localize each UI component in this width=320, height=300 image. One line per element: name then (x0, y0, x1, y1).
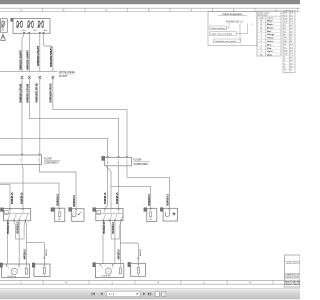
svg-text:White: White (267, 20, 274, 23)
svg-text:B16R1B-L5: B16R1B-L5 (57, 193, 59, 205)
right floor connector RC tab (102, 156, 105, 160)
svg-text:B16R1B-L5: B16R1B-L5 (12, 192, 14, 204)
box1R internal wires (100, 264, 120, 268)
battery SBR2 tab (160, 208, 163, 212)
svg-text:0.3: 0.3 (290, 12, 293, 14)
svg-text:Green: Green (267, 40, 274, 43)
svg-text:0.85: 0.85 (284, 19, 288, 21)
svg-text:A6R1B: A6R1B (139, 249, 142, 256)
left relay contact arms (8, 214, 28, 220)
LC pin 1 mark (21, 154, 23, 155)
battery SBR2 box (163, 208, 177, 221)
resistor box2L (34, 264, 50, 276)
switch hook element SBL2 (72, 210, 76, 217)
toolbar last-page arrow (148, 292, 151, 295)
switch SBL2 box (72, 209, 84, 222)
svg-text:HORN CIRCUIT: HORN CIRCUIT (286, 263, 300, 265)
svg-text:0.5f: 0.5f (284, 15, 288, 17)
svg-text:B16R1B-L5: B16R1B-L5 (149, 193, 151, 205)
svg-text:1 / 1: 1 / 1 (109, 292, 115, 296)
resistor SBR1 tab (144, 208, 147, 212)
connector J/B box A (cropped at left edge) (1, 19, 8, 33)
svg-text:Cable colour (Orange): Cable colour (Orange) (210, 33, 232, 36)
label conductor size (214, 39, 241, 43)
resistor in box2L (43, 268, 45, 274)
wire right relay pin1 to lamp box (102, 221, 104, 264)
svg-text:B08R1B2R-5FLR5: B08R1B2R-5FLR5 (50, 83, 53, 103)
toolbar first-page arrow (92, 292, 95, 295)
svg-text:FLOOR: FLOOR (44, 158, 52, 160)
svg-text:8.0: 8.0 (290, 67, 293, 69)
svg-text:Au3: Au3 (44, 29, 47, 32)
cable designation legend box (208, 12, 257, 46)
svg-text:HORN-LH: HORN-LH (8, 276, 17, 278)
svg-text:4: 4 (157, 280, 159, 284)
SBR1 pin mark (150, 208, 152, 209)
left relay K1 box (4, 209, 31, 221)
svg-text:0.5: 0.5 (284, 47, 287, 49)
toolbar page input box (107, 291, 141, 296)
svg-text:1.25: 1.25 (284, 54, 288, 56)
solenoid cell 3 in box B (37, 21, 43, 28)
svg-text:WIRING DIAGRAM: WIRING DIAGRAM (285, 283, 300, 286)
svg-text:1: 1 (126, 162, 127, 164)
resistor SBR1 box (147, 208, 157, 221)
svg-text:Cable marking: Cable marking (211, 27, 226, 30)
left relay top pin marks (9, 209, 24, 210)
svg-text:B10R1B-L5: B10R1B-L5 (17, 221, 19, 233)
svg-text:0.8: 0.8 (290, 51, 293, 53)
svg-text:B08R1B2-L5WHT5: B08R1B2-L5WHT5 (19, 50, 22, 70)
box2L pin mark (44, 265, 46, 266)
right floor connector RC (105, 157, 132, 165)
left relay tab (1, 208, 4, 212)
splice mark on box2L drop (44, 257, 46, 259)
svg-text:3: 3 (107, 162, 108, 164)
wire right relay pin4 down to lamp box resistor (119, 221, 122, 264)
svg-text:20: 20 (290, 41, 292, 43)
svg-text:B08R1B2-L5WHT5: B08R1B2-L5WHT5 (27, 50, 30, 70)
svg-text:COMPONENT: COMPONENT (44, 163, 60, 165)
svg-text:W: W (260, 21, 262, 23)
svg-text:0.3f: 0.3f (284, 12, 288, 14)
svg-text:Au2: Au2 (33, 29, 36, 32)
svg-text:2: 2 (284, 57, 285, 59)
left relay internal bus (5, 213, 30, 215)
warning triangle (1, 34, 6, 40)
relay block box B (13, 19, 50, 34)
wire RC pin2 to right relay (118, 166, 120, 209)
svg-text:Brown: Brown (267, 26, 274, 29)
left relay bottom pin marks (7, 220, 26, 221)
right relay bottom pin marks (103, 220, 122, 221)
title block (285, 255, 305, 287)
svg-text:2: 2 (20, 160, 21, 162)
wire W1 lower run (21, 79, 23, 155)
svg-text:B08R1B2-L5FLR5: B08R1B2-L5FLR5 (19, 83, 22, 102)
svg-text:B08R1B2R-5WHT5: B08R1B2R-5WHT5 (50, 47, 53, 67)
svg-text:1: 1 (111, 280, 113, 284)
pin dots box A (3, 21, 4, 28)
svg-text:A6R1B-L5: A6R1B-L5 (118, 249, 121, 260)
svg-text:0.8: 0.8 (290, 19, 293, 21)
svg-text:A6R1B: A6R1B (45, 249, 48, 256)
lamp box1R tab (93, 263, 96, 267)
svg-text:15f: 15f (284, 38, 287, 40)
RC pin marks (107, 156, 129, 157)
right relay tab (93, 208, 96, 212)
wire LC pin2 to switch SBL2 (40, 164, 77, 207)
wire relay pin4 down to lamp box resistor (25, 221, 28, 264)
viewer top dark bar (0, 0, 300, 4)
svg-text:4: 4 (65, 280, 67, 284)
resistor in box1L (25, 268, 27, 274)
svg-text:1: 1 (20, 280, 22, 284)
svg-text:Cable designation: Cable designation (222, 13, 243, 16)
resistor in box2R (137, 267, 139, 273)
svg-text:Gr: Gr (260, 54, 263, 57)
svg-text:1.25: 1.25 (284, 22, 288, 24)
svg-text:W08R1B2-L5FLR5: W08R1B2-L5FLR5 (36, 83, 39, 103)
lamp box1L (2, 264, 30, 277)
svg-text:W08R1B2-L5WHT5: W08R1B2-L5WHT5 (37, 45, 40, 66)
lamp box1R (95, 264, 123, 278)
wire relay pin3 to lamp box (18, 221, 20, 264)
inline connector splice on W2 (28, 76, 31, 79)
solenoid cell 1 in box B (16, 21, 22, 28)
right relay contact arms (103, 214, 123, 220)
svg-text:0.85: 0.85 (284, 51, 288, 53)
resistor box2R (130, 263, 145, 276)
svg-text:FLOOR: FLOOR (133, 160, 141, 162)
box1L internal wires (7, 264, 27, 269)
bottom ruler zone numbers (20, 280, 251, 284)
harness bracket below right relay (110, 221, 122, 239)
SBR2 pin mark (169, 208, 171, 209)
svg-text:B16R1B-L5: B16R1B-L5 (74, 194, 76, 206)
svg-text:B10R1W-L5: B10R1W-L5 (104, 221, 106, 234)
resistor element SBL1 (58, 212, 60, 217)
right relay K2 box (96, 208, 123, 220)
wire branch to resistor SBR1 (111, 186, 151, 208)
box1R pin marks (100, 264, 114, 265)
svg-text:3: 3 (284, 60, 285, 62)
wire LC pin1 to left relay (22, 164, 23, 208)
feed wire from off-page to right connector (0, 138, 108, 157)
SBL1 pin mark (59, 208, 61, 209)
solenoid cell 2 in box B (27, 21, 33, 28)
svg-text:15: 15 (284, 70, 286, 72)
svg-text:A6R1B-L5: A6R1B-L5 (23, 249, 26, 260)
conductor size table (283, 11, 295, 73)
wire branch to resistor box2L (26, 242, 44, 264)
svg-text:Violet: Violet (267, 50, 273, 53)
resistor in box1R (119, 268, 121, 274)
bottom border ruler (0, 280, 285, 284)
right relay top pin marks (104, 209, 120, 210)
svg-text:0.3: 0.3 (290, 44, 293, 46)
toolbar prev-page arrow (100, 292, 102, 295)
left relay top pin stubs (10, 209, 23, 214)
motor symbol in box1L (11, 268, 17, 274)
right relay coil (97, 211, 101, 215)
svg-text:1: 1 (38, 160, 39, 162)
box2R pin mark (138, 264, 140, 265)
inline connector splice on W4 (52, 76, 55, 79)
wire RC pin3 to battery SBR2 (127, 166, 169, 209)
svg-text:AVSSB 0.85 L Y: AVSSB 0.85 L Y (226, 21, 244, 24)
inline connector splice on W3 (39, 76, 42, 79)
svg-text:1: 1 (1, 30, 2, 32)
svg-text:1: 1 (203, 280, 205, 284)
toolbar next-page arrow (143, 292, 145, 295)
wire W2 from box B pin 2 (28, 33, 30, 71)
svg-text:15: 15 (290, 38, 292, 40)
motor symbol in box1R (105, 268, 111, 274)
svg-text:BODY ELECTRICAL: BODY ELECTRICAL (285, 280, 300, 283)
right relay internal bus (97, 213, 122, 215)
solenoid element inside box A (1, 21, 5, 30)
wire RC pin1 to right relay (jog) (105, 166, 108, 209)
svg-text:B16R1B-L5: B16R1B-L5 (105, 192, 107, 204)
label cable colour (210, 32, 237, 36)
wire right relay pin3 to lamp box (114, 221, 116, 264)
svg-text:Conductor size (mm2): Conductor size (mm2) (214, 40, 236, 43)
LC pin 2 mark (38, 154, 40, 155)
feed wire off-page to resistor SBL1 (0, 183, 59, 208)
switch arrow SBL2 (78, 212, 81, 215)
box1L pin marks (6, 265, 20, 266)
switch SBL2 tab (69, 208, 72, 212)
wire W3 lower run (39, 79, 41, 155)
svg-text:0.5: 0.5 (290, 15, 293, 17)
wire W4 from box B pin 4 (loop right) (44, 33, 53, 71)
svg-text:CHECKED: CHECKED (285, 277, 294, 279)
svg-text:Black: Black (267, 24, 273, 26)
left floor connector LC (cropped left) (0, 155, 42, 164)
svg-text:B16R1B-L5: B16R1B-L5 (168, 193, 170, 205)
svg-text:B16R1B-L5: B16R1B-L5 (117, 192, 119, 204)
resistor SBL1 tab (51, 208, 55, 212)
harness boundary line WHITE_PANEL/FLOOR (0, 70, 58, 72)
resistor box2R tab (128, 262, 131, 266)
wire W3 from box B pin 3 (39, 33, 41, 71)
svg-text:0.3: 0.3 (284, 44, 287, 46)
svg-text:8.0: 8.0 (290, 35, 293, 37)
wire W2 lower run to right connector (29, 79, 118, 157)
colour code table (257, 11, 281, 57)
svg-text:3.0: 3.0 (290, 28, 293, 30)
svg-text:FLOOR: FLOOR (59, 76, 67, 78)
left relay coil (5, 211, 9, 215)
wire relay pin1 to lamp box (6, 221, 8, 264)
svg-text:B16R1B-L5: B16R1B-L5 (21, 192, 23, 204)
top ruler zone numbers (20, 8, 277, 12)
wire RC pin1 branch diagonal (106, 166, 111, 172)
svg-text:5: 5 (284, 63, 285, 65)
resistor box2L tab (32, 263, 35, 267)
relay block tab (box B connector id) (11, 18, 13, 21)
inline connector splice on W1 (21, 76, 24, 79)
RC pin pass-through wires (108, 157, 127, 165)
drawing frame top ruler (0, 8, 300, 11)
resistor element SBR1 (150, 212, 152, 217)
toolbar page-view icon 2 (162, 291, 166, 296)
svg-text:2.0: 2.0 (290, 57, 293, 59)
right relay top pin stubs (105, 209, 119, 214)
svg-text:Au1: Au1 (23, 29, 26, 32)
svg-text:1.2: 1.2 (290, 54, 293, 56)
resistor SBL1 box (55, 208, 65, 221)
svg-text:A4: A4 (295, 275, 297, 278)
box B bottom pin marks (23, 32, 44, 33)
toolbar page-view icon 1 (155, 291, 159, 296)
svg-text:8: 8 (284, 67, 285, 69)
svg-text:Orange: Orange (267, 33, 275, 36)
svg-text:4: 4 (249, 280, 251, 284)
svg-text:B10R1W-L5: B10R1W-L5 (8, 221, 10, 234)
svg-text:5.0: 5.0 (290, 31, 293, 33)
splice mark on box2R drop (137, 258, 139, 260)
lamp box1L tab (0, 263, 3, 267)
wire W1 from box B pin 1 (22, 33, 24, 71)
svg-text:HORN-RH: HORN-RH (102, 276, 112, 278)
svg-text:Br: Br (260, 26, 262, 29)
leader lines (229, 23, 252, 41)
wire branch to resistor box2R (120, 243, 138, 263)
svg-text:0.5: 0.5 (290, 47, 293, 49)
feed wire off-page to left relay coil (0, 185, 10, 209)
label cable marking (210, 26, 227, 30)
LC pin pass-through wires (22, 155, 40, 164)
svg-text:Yellow: Yellow (267, 38, 274, 40)
svg-text:Gray: Gray (267, 54, 273, 57)
svg-text:5.0: 5.0 (290, 63, 293, 65)
svg-text:20f: 20f (284, 41, 287, 43)
svg-text:2: 2 (118, 162, 119, 164)
SBL2 pin mark (75, 209, 77, 210)
svg-text:COMPONENT: COMPONENT (133, 164, 149, 166)
wire W4 lower run to right connector (53, 79, 127, 157)
svg-text:3.0: 3.0 (290, 60, 293, 62)
svg-text:B10R1B-L5: B10R1B-L5 (113, 221, 115, 233)
svg-text:WHITE_PANEL: WHITE_PANEL (59, 71, 76, 74)
svg-text:1.2: 1.2 (290, 22, 293, 24)
svg-text:B08R1B2-L5FLR5: B08R1B2-L5FLR5 (27, 83, 30, 102)
harness bracket below left relay (14, 221, 26, 239)
battery plus sign SBR2 (172, 212, 175, 215)
svg-text:2.0: 2.0 (290, 25, 293, 27)
wire branch down to right relay coil (110, 171, 112, 208)
battery hook element SBR2 (165, 210, 169, 217)
viewer bottom toolbar (0, 288, 300, 300)
svg-text:15: 15 (290, 70, 292, 72)
